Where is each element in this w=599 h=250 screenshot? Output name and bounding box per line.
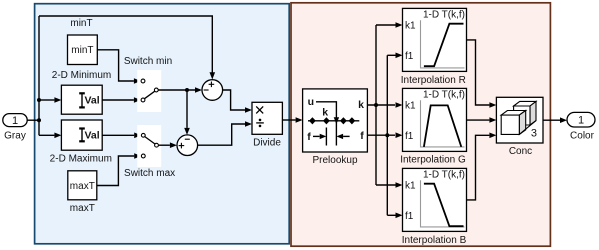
svg-text:f1: f1 — [405, 131, 414, 142]
svg-text:f1: f1 — [405, 211, 414, 222]
svg-text:k1: k1 — [405, 21, 416, 32]
svg-text:maxT: maxT — [70, 203, 95, 214]
svg-text:Prelookup: Prelookup — [312, 155, 357, 166]
svg-text:minT: minT — [70, 18, 92, 29]
svg-text:1-D T(k,f): 1-D T(k,f) — [423, 89, 465, 100]
svg-text:2-D Minimum: 2-D Minimum — [52, 70, 111, 81]
svg-text:Gray: Gray — [4, 131, 26, 142]
svg-text:k1: k1 — [405, 101, 416, 112]
svg-text:Switch min: Switch min — [124, 56, 172, 67]
svg-text:Interpolation R: Interpolation R — [401, 75, 466, 86]
svg-text:Interpolation B: Interpolation B — [402, 235, 467, 246]
svg-text:3: 3 — [531, 127, 537, 139]
svg-text:minT: minT — [71, 45, 93, 56]
svg-text:Val: Val — [85, 94, 100, 106]
svg-text:1: 1 — [578, 115, 584, 127]
svg-text:k: k — [358, 99, 364, 111]
svg-text:Val: Val — [85, 130, 100, 142]
svg-text:1-D T(k,f): 1-D T(k,f) — [423, 9, 465, 20]
svg-text:1-D T(k,f): 1-D T(k,f) — [423, 169, 465, 180]
svg-text:Color: Color — [570, 131, 595, 142]
svg-text:maxT: maxT — [70, 181, 95, 192]
svg-text:Conc: Conc — [509, 146, 532, 157]
svg-text:Switch max: Switch max — [124, 168, 175, 179]
svg-text:k: k — [322, 107, 328, 119]
svg-text:1: 1 — [12, 115, 18, 127]
svg-text:k1: k1 — [405, 181, 416, 192]
svg-text:Interpolation G: Interpolation G — [400, 155, 466, 166]
svg-text:f: f — [307, 131, 311, 143]
svg-text:f1: f1 — [405, 51, 414, 62]
svg-text:2-D Maximum: 2-D Maximum — [50, 154, 112, 165]
svg-text:f: f — [360, 130, 364, 142]
svg-text:Divide: Divide — [253, 137, 281, 148]
svg-text:u: u — [308, 96, 314, 108]
